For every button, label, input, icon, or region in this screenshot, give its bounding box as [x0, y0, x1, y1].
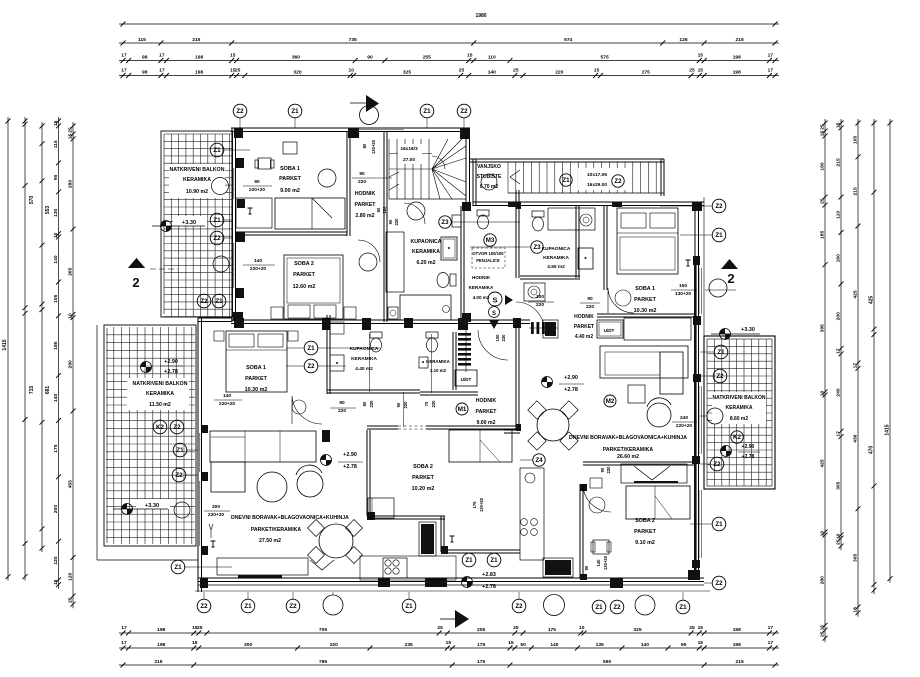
- svg-text:PARKET: PARKET: [634, 297, 656, 303]
- svg-text:Z2: Z2: [236, 108, 244, 115]
- sink 4.50: [524, 283, 545, 301]
- svg-text:1415: 1415: [2, 339, 8, 350]
- svg-text:Z1: Z1: [715, 521, 723, 528]
- svg-text:17: 17: [121, 625, 127, 631]
- bed soba2 right: [626, 486, 690, 519]
- ujdt closet left apt: [455, 370, 477, 386]
- svg-text:305: 305: [836, 481, 842, 489]
- svg-text:80: 80: [362, 143, 367, 148]
- svg-text:Z1: Z1: [679, 604, 687, 611]
- svg-text:1415: 1415: [885, 424, 891, 435]
- level +2.90 right apt: [542, 377, 553, 388]
- door arc soba1 right: [608, 288, 634, 313]
- svg-text:+3.30: +3.30: [182, 220, 196, 226]
- svg-text:215: 215: [836, 158, 842, 166]
- svg-text:PARKET: PARKET: [245, 376, 267, 382]
- svg-text:265: 265: [68, 267, 74, 275]
- svg-text:120: 120: [53, 556, 59, 564]
- kitchen left apt: [368, 498, 394, 518]
- svg-text:4.40 m2: 4.40 m2: [355, 366, 373, 372]
- svg-text:Z1: Z1: [307, 345, 315, 352]
- svg-text:Z2: Z2: [175, 472, 183, 479]
- svg-text:130: 130: [53, 208, 59, 216]
- shower 4.50: [578, 248, 593, 269]
- svg-text:PENJALICE: PENJALICE: [476, 258, 500, 263]
- svg-text:575: 575: [601, 55, 609, 61]
- door arc bath 6.20: [404, 203, 425, 224]
- svg-text:+2.83: +2.83: [482, 572, 496, 578]
- door arc soba1: [318, 169, 336, 187]
- svg-text:K2: K2: [733, 434, 741, 441]
- outer wall left lower: [197, 318, 199, 592]
- svg-text:15: 15: [698, 625, 704, 631]
- svg-text:Z2: Z2: [307, 363, 315, 370]
- svg-text:10: 10: [68, 313, 74, 319]
- svg-text:Z1: Z1: [174, 564, 182, 571]
- door arc soba2: [358, 240, 380, 262]
- svg-text:105: 105: [53, 295, 59, 303]
- svg-text:305: 305: [853, 554, 859, 562]
- svg-text:Z2: Z2: [515, 603, 523, 610]
- wall soba2-10.20 area: [366, 430, 368, 516]
- svg-text:NATKRIVENI BALKON: NATKRIVENI BALKON: [170, 167, 225, 173]
- svg-text:11.50 m2: 11.50 m2: [149, 402, 171, 408]
- svg-text:140: 140: [254, 258, 262, 264]
- svg-text:Z2: Z2: [173, 424, 181, 431]
- svg-text:25: 25: [459, 68, 465, 74]
- svg-text:220+20: 220+20: [249, 187, 265, 193]
- svg-text:Z2: Z2: [200, 603, 208, 610]
- svg-text:110: 110: [488, 55, 496, 61]
- svg-text:215: 215: [736, 37, 744, 43]
- svg-text:9.00 m2: 9.00 m2: [476, 420, 495, 426]
- stair core right wall: [465, 128, 467, 206]
- svg-text:198: 198: [195, 70, 203, 76]
- svg-text:190: 190: [820, 162, 826, 170]
- top marker circles: [233, 104, 247, 118]
- nightstands: [214, 331, 224, 341]
- pouf right: [628, 385, 645, 403]
- svg-text:220+20: 220+20: [208, 512, 224, 518]
- svg-text:4.00 m2: 4.00 m2: [473, 295, 490, 300]
- svg-text:140: 140: [223, 393, 231, 399]
- wc toilet small: [427, 338, 438, 352]
- svg-text:Z1: Z1: [215, 298, 223, 305]
- svg-text:325: 325: [633, 627, 641, 633]
- kitchen right apartment: [520, 468, 544, 560]
- outer wall bottom: [198, 577, 704, 579]
- svg-text:553: 553: [45, 206, 51, 215]
- T hook marks: [211, 541, 216, 547]
- svg-text:715: 715: [29, 386, 35, 395]
- svg-text:280: 280: [68, 180, 74, 188]
- svg-text:300: 300: [244, 642, 252, 648]
- bed soba1 right: [617, 208, 678, 274]
- svg-text:PARKET: PARKET: [634, 529, 656, 535]
- svg-text:+2.90: +2.90: [343, 452, 357, 458]
- shower bath 6.20: [441, 237, 457, 260]
- svg-text:215: 215: [736, 659, 744, 665]
- svg-text:220: 220: [394, 218, 399, 226]
- svg-text:110: 110: [836, 211, 842, 219]
- svg-text:175: 175: [472, 501, 477, 509]
- svg-text:25: 25: [820, 631, 826, 637]
- svg-text:215: 215: [853, 187, 859, 195]
- sideboard left living: [217, 558, 308, 575]
- entry S symbol: [488, 292, 502, 306]
- svg-text:Z3: Z3: [441, 219, 449, 226]
- svg-text:135: 135: [596, 642, 604, 648]
- svg-text:HODNIK: HODNIK: [472, 275, 491, 280]
- svg-text:175: 175: [477, 642, 485, 648]
- svg-text:2: 2: [132, 275, 139, 290]
- svg-text:215: 215: [154, 659, 162, 665]
- svg-text:+2.90: +2.90: [564, 375, 578, 381]
- svg-text:Z2: Z2: [289, 603, 297, 610]
- level +2.90 balcony2: [141, 362, 152, 373]
- K2 marker right balcony: [731, 431, 743, 443]
- bathtub 6.20: [400, 295, 451, 320]
- svg-text:KUPAONICA: KUPAONICA: [410, 239, 441, 245]
- svg-text:98: 98: [142, 70, 148, 76]
- toilet bath 6.20: [437, 273, 449, 288]
- svg-text:15: 15: [508, 640, 514, 646]
- svg-text:Z1: Z1: [213, 147, 221, 154]
- svg-text:25: 25: [235, 68, 241, 74]
- svg-text:140: 140: [53, 394, 59, 402]
- svg-text:NATKRIVENI BALKON: NATKRIVENI BALKON: [133, 381, 188, 387]
- svg-text:70: 70: [424, 401, 429, 406]
- svg-text:220+20: 220+20: [250, 266, 266, 272]
- svg-text:SOBA 2: SOBA 2: [413, 464, 433, 470]
- svg-text:25: 25: [820, 198, 826, 204]
- svg-text:STUBIŠTE: STUBIŠTE: [477, 172, 502, 180]
- svg-text:200: 200: [212, 504, 220, 510]
- svg-text:SOBA 2: SOBA 2: [294, 261, 314, 267]
- section mark 2 left: [128, 258, 145, 268]
- wardrobe soba2 right: [621, 464, 687, 483]
- door arc hodnik9 entry: [478, 330, 508, 360]
- svg-text:160: 160: [836, 254, 842, 262]
- svg-text:OTVOR 100/100: OTVOR 100/100: [472, 251, 504, 256]
- svg-text:HODNIK: HODNIK: [476, 398, 497, 404]
- svg-text:6.20 m2: 6.20 m2: [416, 260, 435, 266]
- svg-text:KERAMIKA: KERAMIKA: [469, 285, 494, 290]
- level +2.90 balcony right: [721, 446, 732, 457]
- svg-text:U/DT: U/DT: [461, 377, 472, 382]
- svg-text:425: 425: [820, 459, 826, 467]
- right dimension chains: [824, 119, 826, 642]
- svg-text:Z1: Z1: [465, 557, 473, 564]
- svg-text:705: 705: [319, 627, 327, 633]
- toilet M3 bath: [478, 215, 489, 229]
- svg-text:17: 17: [121, 68, 127, 74]
- svg-text:100: 100: [536, 294, 544, 300]
- svg-text:17: 17: [853, 363, 859, 369]
- svg-text:25: 25: [820, 124, 826, 130]
- svg-text:17: 17: [836, 348, 842, 354]
- svg-text:130+20: 130+20: [603, 555, 608, 570]
- svg-text:220: 220: [338, 408, 346, 414]
- svg-text:15: 15: [820, 131, 826, 137]
- kupaonica 4.50 bottom wall: [520, 275, 580, 277]
- svg-text:10.30 m2: 10.30 m2: [634, 308, 657, 314]
- svg-text:25: 25: [513, 625, 519, 631]
- svg-text:140: 140: [53, 255, 59, 263]
- svg-text:+2.78: +2.78: [343, 464, 357, 470]
- svg-text:275: 275: [642, 70, 650, 76]
- outer wall left upper: [231, 128, 233, 322]
- svg-text:25: 25: [689, 625, 695, 631]
- svg-text:S: S: [492, 311, 496, 317]
- svg-text:15: 15: [230, 53, 236, 59]
- svg-text:235: 235: [405, 642, 413, 648]
- svg-text:25: 25: [689, 68, 695, 74]
- svg-text:115: 115: [138, 37, 146, 43]
- ujdt closet right apt: [597, 320, 623, 338]
- svg-text:26.60 m2: 26.60 m2: [617, 454, 639, 460]
- svg-text:PARKET: PARKET: [574, 324, 594, 330]
- svg-text:PARKET: PARKET: [355, 202, 377, 208]
- svg-text:120: 120: [68, 572, 74, 580]
- svg-text:2: 2: [727, 271, 734, 286]
- svg-text:205: 205: [477, 627, 485, 633]
- level +3.30 right: [720, 329, 731, 340]
- svg-text:15: 15: [820, 625, 826, 631]
- sink M3: [452, 215, 461, 227]
- svg-text:198: 198: [733, 642, 741, 648]
- svg-text:735: 735: [349, 37, 357, 43]
- svg-text:198: 198: [195, 55, 203, 61]
- svg-text:+2.90: +2.90: [742, 444, 755, 450]
- stair direction arrow: [389, 172, 399, 177]
- svg-text:KERAMIKA: KERAMIKA: [351, 356, 377, 362]
- interior wall soba1/soba2 upper: [235, 231, 347, 233]
- svg-text:98: 98: [142, 55, 148, 61]
- svg-text:240: 240: [836, 388, 842, 396]
- svg-text:90: 90: [600, 467, 605, 472]
- entry core wall right: [515, 190, 517, 278]
- svg-text:+2.78: +2.78: [564, 387, 578, 393]
- svg-text:KERAMIKA: KERAMIKA: [146, 391, 174, 397]
- svg-text:215: 215: [192, 37, 200, 43]
- coffee table left: [257, 472, 287, 502]
- svg-text:16x29.00: 16x29.00: [587, 182, 607, 188]
- desk chair soba2 right: [590, 478, 602, 488]
- svg-text:220: 220: [536, 302, 544, 308]
- balcony1 markers: [210, 143, 224, 157]
- svg-text:KERAMIKA: KERAMIKA: [412, 249, 440, 255]
- svg-text:574: 574: [564, 37, 572, 43]
- svg-text:590: 590: [603, 659, 611, 665]
- top left triangle mark 2: [128, 258, 145, 268]
- svg-text:220+20: 220+20: [676, 423, 692, 429]
- wc sink: [419, 357, 428, 368]
- svg-text:90: 90: [388, 219, 393, 224]
- svg-text:175: 175: [53, 444, 59, 452]
- bottom wall window dashes: [212, 581, 376, 583]
- svg-text:15: 15: [68, 134, 74, 140]
- svg-text:1980: 1980: [475, 13, 486, 19]
- svg-text:18: 18: [853, 607, 859, 613]
- svg-text:Z2: Z2: [715, 580, 723, 587]
- svg-text:185: 185: [820, 231, 826, 239]
- svg-text:90: 90: [584, 565, 589, 570]
- svg-text:10: 10: [53, 232, 59, 238]
- svg-text:425: 425: [853, 290, 859, 298]
- svg-text:Z1: Z1: [717, 349, 725, 356]
- svg-text:KERAMIKA: KERAMIKA: [726, 405, 753, 411]
- svg-text:HODNIK: HODNIK: [355, 191, 376, 197]
- svg-text:27.00: 27.00: [403, 157, 415, 163]
- balcony right NATKRIVENI BALKON 8.60: [704, 336, 775, 489]
- svg-text:10x17.06: 10x17.06: [587, 172, 607, 178]
- right wall windows: [698, 268, 700, 314]
- svg-text:25: 25: [437, 625, 443, 631]
- dining table left: [319, 524, 353, 558]
- svg-text:325: 325: [403, 70, 411, 76]
- vanjsko left wall: [472, 159, 474, 206]
- bed soba2 double: [284, 255, 343, 319]
- external stair VANJSKO: [508, 161, 664, 163]
- svg-text:50: 50: [520, 642, 526, 648]
- svg-text:DNEVNI BORAVAK+BLAGOVAONICA+KU: DNEVNI BORAVAK+BLAGOVAONICA+KUHINJA: [569, 435, 687, 441]
- svg-text:NATKRIVENI BALKON: NATKRIVENI BALKON: [713, 395, 766, 401]
- svg-text:Z1: Z1: [562, 177, 570, 184]
- svg-text:10: 10: [579, 625, 585, 631]
- interior wall hodnik/stair-bath: [383, 132, 385, 322]
- svg-text:16x18/3: 16x18/3: [400, 146, 418, 152]
- svg-text:15: 15: [698, 53, 704, 59]
- svg-text:17: 17: [159, 68, 165, 74]
- toilet kupaonica 4.50: [533, 217, 544, 231]
- svg-text:175: 175: [548, 627, 556, 633]
- sink bath 4.40: [330, 355, 344, 371]
- level +2.83 bottom: [462, 577, 473, 588]
- bath 6.20 right wall: [460, 206, 462, 320]
- dining right apartment: [537, 409, 569, 441]
- level +2.90 center: [321, 455, 332, 466]
- penjalice hodnik 4.00 label: [472, 248, 505, 268]
- closet row right apt: [624, 318, 691, 340]
- svg-text:Z2: Z2: [460, 108, 468, 115]
- door arc soba1 10.30: [292, 396, 322, 424]
- right edge markers: [712, 199, 726, 213]
- svg-text:10: 10: [836, 533, 842, 539]
- svg-text:PARKET/KERAMIKA: PARKET/KERAMIKA: [251, 527, 302, 533]
- svg-text:140: 140: [641, 642, 649, 648]
- svg-text:Z2: Z2: [213, 235, 221, 242]
- svg-text:27.50 m2: 27.50 m2: [259, 538, 281, 544]
- svg-text:140: 140: [596, 559, 601, 567]
- svg-text:KERAMIKA: KERAMIKA: [183, 177, 211, 183]
- section mark 1 top: [350, 102, 367, 104]
- svg-text:240: 240: [680, 415, 688, 421]
- svg-text:10: 10: [820, 531, 826, 537]
- svg-text:+2.78: +2.78: [164, 369, 178, 375]
- svg-text:198: 198: [733, 70, 741, 76]
- svg-text:785: 785: [319, 659, 327, 665]
- door arc soba2 right: [583, 484, 611, 512]
- svg-text:185: 185: [53, 341, 59, 349]
- svg-text:17: 17: [768, 625, 774, 631]
- svg-text:15: 15: [192, 640, 198, 646]
- svg-text:15: 15: [836, 122, 842, 128]
- main mid horizontal wall: [231, 319, 465, 321]
- svg-text:PARKET: PARKET: [476, 409, 498, 415]
- svg-text:681: 681: [45, 386, 51, 395]
- svg-text:17: 17: [159, 53, 165, 59]
- svg-text:220: 220: [555, 70, 563, 76]
- window top wall: [356, 127, 404, 129]
- balcony mid-left NATKRIVENI BALKON 11.50: [96, 325, 98, 560]
- svg-text:8.60 m2: 8.60 m2: [730, 416, 749, 422]
- sink 6.20: [388, 307, 398, 319]
- svg-text:220+20: 220+20: [219, 401, 235, 407]
- wall hodnik4.40/soba1 right apt: [575, 206, 577, 278]
- svg-text:198: 198: [157, 627, 165, 633]
- svg-text:PARKET: PARKET: [279, 176, 301, 182]
- interior wall soba1/hodnik upper: [346, 132, 348, 236]
- bath row walls lower-left: [326, 315, 328, 394]
- section mark 1 bottom: [440, 618, 456, 620]
- svg-text:220: 220: [358, 179, 366, 185]
- svg-text:175: 175: [477, 659, 485, 665]
- wall soba2 right apt: [579, 484, 581, 578]
- svg-text:90: 90: [339, 400, 345, 406]
- svg-text:90: 90: [53, 174, 59, 180]
- svg-text:290: 290: [68, 360, 74, 368]
- stair block right wall: [660, 159, 662, 196]
- wall kitchen right apt: [515, 322, 517, 430]
- svg-text:+2.78: +2.78: [742, 454, 755, 460]
- svg-text:17: 17: [836, 431, 842, 437]
- svg-text:198: 198: [733, 55, 741, 61]
- svg-text:25: 25: [68, 597, 74, 603]
- level +3.30 lower-left: [136, 499, 170, 509]
- svg-text:470: 470: [869, 446, 875, 455]
- svg-text:105: 105: [853, 136, 859, 144]
- svg-text:SOBA 1: SOBA 1: [246, 365, 266, 371]
- svg-text:15: 15: [698, 68, 704, 74]
- svg-text:Z2: Z2: [716, 373, 724, 380]
- svg-text:15: 15: [446, 640, 452, 646]
- svg-text:SOBA 1: SOBA 1: [635, 286, 655, 292]
- svg-text:10: 10: [820, 391, 826, 397]
- svg-text:25: 25: [197, 625, 203, 631]
- svg-text:255: 255: [423, 55, 431, 61]
- svg-text:10.20 m2: 10.20 m2: [412, 486, 435, 492]
- sofa right apartment: [600, 346, 688, 378]
- svg-text:140: 140: [488, 70, 496, 76]
- balcony top-left NATKRIVENI BALKON 10.90: [161, 131, 233, 317]
- svg-text:15: 15: [594, 68, 600, 74]
- bed soba2 10.20: [449, 430, 512, 462]
- interior leader circles: [304, 341, 318, 355]
- svg-text:220: 220: [606, 466, 611, 474]
- desk soba1: [283, 142, 297, 154]
- svg-text:2.80 m2: 2.80 m2: [355, 213, 374, 219]
- svg-text:126: 126: [679, 37, 687, 43]
- svg-text:+3.30: +3.30: [741, 327, 755, 333]
- svg-text:Z1: Z1: [423, 108, 431, 115]
- svg-text:150: 150: [679, 283, 687, 289]
- svg-text:15: 15: [53, 120, 59, 126]
- bed soba1 10.30: [226, 331, 287, 392]
- svg-text:U/DT: U/DT: [604, 328, 615, 333]
- svg-text:10.90 m2: 10.90 m2: [186, 189, 208, 195]
- svg-text:90: 90: [587, 296, 593, 302]
